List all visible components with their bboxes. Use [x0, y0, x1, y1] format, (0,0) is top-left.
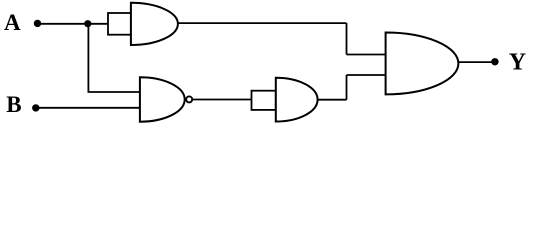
and-gate U3 tied-input box	[252, 91, 276, 110]
wire U3 route up	[346, 75, 348, 100]
wire U3 route to OR bottom input	[347, 74, 388, 76]
wire U1 route down	[346, 23, 348, 54]
terminal dot A	[34, 20, 41, 27]
node junction on A wire	[84, 20, 91, 27]
wire A branch vertical down	[87, 24, 89, 92]
wire A horizontal	[38, 23, 109, 25]
and-gate U1 body	[131, 3, 178, 45]
wire Y output	[458, 61, 495, 63]
terminal dot Y	[491, 58, 498, 65]
wire U1 output	[178, 22, 347, 24]
or-gate U4 body	[386, 33, 459, 95]
svg-text:Y: Y	[509, 50, 526, 76]
and-gate U3 body	[276, 78, 318, 122]
terminal dot B	[32, 104, 39, 111]
wire U1 route to OR top input	[347, 54, 388, 56]
wire B to NAND bottom input	[36, 107, 141, 109]
svg-text:A: A	[4, 10, 21, 35]
wire A branch to NAND top input	[88, 91, 141, 93]
svg-text:B: B	[6, 92, 21, 117]
wire U2 output to U3	[192, 99, 252, 101]
wire U3 output	[317, 99, 346, 101]
nand-gate U2 bubble	[186, 96, 192, 102]
and-gate U1 tied-input box	[108, 13, 131, 35]
nand-gate U2 body	[140, 77, 185, 122]
